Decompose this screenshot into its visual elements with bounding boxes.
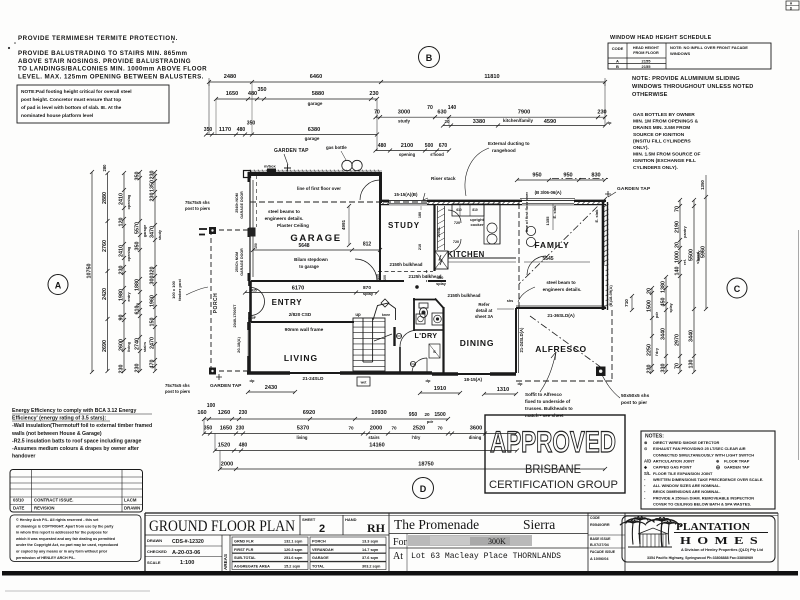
svg-text:CODE: CODE [590, 516, 601, 520]
svg-text:2740: 2740 [135, 338, 141, 350]
svg-text:5545: 5545 [542, 256, 553, 262]
svg-text:steel beam to: steel beam to [546, 280, 576, 285]
svg-text:1435: 1435 [249, 289, 257, 293]
svg-text:-Assumes medium colours & drap: -Assumes medium colours & drapes by owne… [12, 446, 139, 452]
svg-text:DRAINS MIN. 3.5M FROM: DRAINS MIN. 3.5M FROM [633, 125, 690, 131]
svg-text:permission of HENLEY ARCH P/L.: permission of HENLEY ARCH P/L. [16, 556, 75, 560]
svg-text:up: up [355, 312, 361, 317]
svg-text:A: A [616, 58, 619, 63]
svg-text:BASE ISSUE: BASE ISSUE [590, 537, 611, 541]
svg-text:250Ch NOM: 250Ch NOM [235, 252, 239, 272]
svg-text:TO LANDINGS/BALCONIES MIN. 100: TO LANDINGS/BALCONIES MIN. 1000mm ABOVE … [18, 66, 207, 73]
svg-text:4991: 4991 [341, 219, 346, 230]
svg-text:70: 70 [675, 363, 681, 369]
svg-text:DINING: DINING [460, 338, 495, 348]
svg-text:120: 120 [119, 218, 125, 227]
svg-text:DIRECT WIRED SMOKE DETECTOR: DIRECT WIRED SMOKE DETECTOR [653, 440, 719, 445]
svg-text:CERTIFICATION GROUP: CERTIFICATION GROUP [489, 479, 618, 491]
svg-text:2520: 2520 [413, 426, 425, 432]
svg-text:GARAGE: GARAGE [312, 556, 329, 560]
svg-text:6460: 6460 [310, 74, 322, 80]
svg-text:ENTRY: ENTRY [272, 298, 303, 307]
svg-text:GARAGE DOOR: GARAGE DOOR [240, 191, 244, 219]
svg-text:PROVIDE TERMIMESH TERMITE PROT: PROVIDE TERMIMESH TERMITE PROTECTION. [18, 35, 178, 42]
svg-text:SCALE: SCALE [147, 560, 161, 565]
svg-text:230: 230 [119, 365, 125, 374]
svg-text:3470: 3470 [150, 226, 156, 238]
svg-text:710: 710 [624, 299, 629, 307]
svg-text:14.7 sqm: 14.7 sqm [362, 548, 379, 552]
svg-text:OTHERWISE: OTHERWISE [632, 92, 668, 98]
svg-text:line of first floor over: line of first floor over [524, 192, 529, 232]
svg-text:225CL: 225CL [437, 226, 441, 238]
svg-text:A Division of Henley Propertie: A Division of Henley Properties (QLD) Pt… [681, 548, 764, 552]
svg-text:630: 630 [437, 110, 446, 116]
svg-text:50x50x5 shs: 50x50x5 shs [621, 393, 650, 399]
svg-text:330: 330 [661, 364, 667, 373]
svg-text:living: living [127, 341, 131, 352]
svg-text:B: B [616, 64, 619, 69]
svg-text:820F: 820F [248, 316, 256, 320]
svg-text:480: 480 [237, 127, 246, 133]
svg-text:NOTE: NO INFILL OVER FRONT FAC: NOTE: NO INFILL OVER FRONT FACADE [670, 45, 748, 50]
svg-text:15.2 sqm: 15.2 sqm [284, 565, 301, 569]
svg-text:10930: 10930 [371, 410, 387, 416]
svg-text:450: 450 [661, 298, 667, 307]
svg-text:fixed to underside of: fixed to underside of [525, 399, 571, 404]
svg-text:which it was requested and any: which it was requested and any fair deal… [15, 537, 116, 541]
svg-text:3380: 3380 [473, 119, 485, 125]
svg-text:BRICK DIMENSIONS ARE NOMINAL.: BRICK DIMENSIONS ARE NOMINAL. [653, 489, 721, 494]
svg-text:of drawings is COPYRIGHT. Apar: of drawings is COPYRIGHT. Apart from use… [16, 524, 114, 528]
svg-text:handover: handover [12, 454, 35, 460]
svg-text:SUB-TOTAL: SUB-TOTAL [234, 556, 256, 560]
svg-text:opening: opening [399, 152, 416, 157]
svg-text:13.3 sqm: 13.3 sqm [362, 540, 379, 544]
svg-text:ref.: ref. [683, 259, 687, 265]
svg-text:shs: shs [507, 299, 514, 303]
svg-text:21-24SLD(A): 21-24SLD(A) [519, 327, 524, 353]
svg-text:3354 Pacific Highway, Springwo: 3354 Pacific Highway, Springwood Ph:3380… [647, 556, 753, 560]
svg-text:670: 670 [439, 143, 448, 149]
svg-text:2155: 2155 [642, 58, 652, 63]
svg-text:SOURCE OF IGNITION: SOURCE OF IGNITION [633, 132, 685, 138]
svg-text:6920: 6920 [303, 410, 315, 416]
svg-text:480: 480 [248, 91, 257, 97]
svg-text:Plaster Ceiling: Plaster Ceiling [277, 223, 309, 228]
svg-text:GAS BOTTLES BY OWNER: GAS BOTTLES BY OWNER [633, 112, 695, 118]
svg-text:18750: 18750 [418, 462, 434, 468]
svg-text:detail at: detail at [476, 308, 493, 313]
svg-text:1350: 1350 [150, 180, 156, 192]
svg-text:5370: 5370 [297, 426, 309, 432]
svg-text:HOMES: HOMES [680, 535, 764, 547]
svg-text:2250: 2250 [647, 344, 653, 356]
svg-text:230: 230 [597, 110, 606, 116]
svg-text:2410: 2410 [119, 193, 125, 205]
svg-text:CONNECTED SIMULTANEOUSLY WITH: CONNECTED SIMULTANEOUSLY WITH LIGHT SWIT… [653, 452, 754, 457]
svg-text:-Wall insulation(Thermotuff fo: -Wall insulation(Thermotuff foil to exte… [12, 423, 152, 429]
svg-text:1170: 1170 [219, 127, 231, 133]
svg-text:PROVIDE BALUSTRADING TO STAIRS: PROVIDE BALUSTRADING TO STAIRS MIN. 865m… [18, 50, 188, 57]
svg-text:dp: dp [607, 120, 612, 125]
svg-text:5880: 5880 [312, 91, 324, 97]
svg-text:2470: 2470 [150, 337, 156, 349]
svg-text:MIN. 1.5M FROM SOURCE OF: MIN. 1.5M FROM SOURCE OF [633, 152, 700, 158]
svg-text:812: 812 [363, 242, 372, 248]
svg-text:18-15(A): 18-15(A) [464, 377, 483, 382]
svg-text:2/820 CSD: 2/820 CSD [289, 312, 312, 317]
svg-text:350: 350 [204, 127, 213, 133]
svg-text:FACADE ISSUE: FACADE ISSUE [590, 550, 616, 554]
svg-text:610: 610 [456, 208, 462, 212]
svg-text:line of first floor over: line of first floor over [297, 186, 341, 191]
svg-text:120.3 sqm: 120.3 sqm [284, 548, 303, 552]
svg-text:210: 210 [418, 244, 422, 250]
svg-text:The Promenade: The Promenade [394, 517, 479, 532]
svg-text:under the Copyright Act, no pa: under the Copyright Act, no part may be … [16, 543, 119, 547]
svg-text:150: 150 [150, 318, 156, 327]
svg-text:1350: 1350 [700, 180, 705, 190]
svg-text:-R2.5 insulation batts to roof: -R2.5 insulation batts to roof space inc… [12, 438, 142, 444]
svg-text:or copied by any means or in a: or copied by any means or in any form wi… [16, 550, 108, 554]
svg-text:70: 70 [675, 206, 681, 212]
svg-text:opening: opening [127, 246, 131, 261]
svg-text:Lot 63 Macleay Place THORNLAND: Lot 63 Macleay Place THORNLANDS [411, 552, 561, 561]
svg-text:2430: 2430 [265, 385, 277, 391]
svg-text:230: 230 [239, 410, 248, 416]
svg-text:l'dry: l'dry [655, 347, 659, 356]
svg-text:75x75x5 shs: 75x75x5 shs [165, 383, 190, 388]
svg-text:DRAWN: DRAWN [147, 538, 162, 543]
svg-text:WINDOW HEAD HEIGHT SCHEDULE: WINDOW HEAD HEIGHT SCHEDULE [610, 35, 712, 41]
svg-text:splay: splay [363, 291, 374, 296]
svg-text:PLANTATION: PLANTATION [676, 522, 751, 533]
svg-text:APPROVED: APPROVED [490, 426, 616, 459]
svg-text:RH: RH [367, 521, 386, 535]
svg-text:1500: 1500 [647, 300, 653, 312]
svg-text:500: 500 [425, 143, 434, 149]
svg-text:140: 140 [448, 105, 457, 111]
svg-text:trusses. Bulkheads to: trusses. Bulkheads to [525, 406, 573, 411]
svg-text:1500: 1500 [434, 412, 445, 418]
svg-text:A/D: A/D [644, 458, 651, 463]
svg-text:1520: 1520 [218, 443, 230, 449]
svg-text:480: 480 [239, 443, 248, 449]
svg-text:S: S [433, 349, 436, 354]
svg-text:1310: 1310 [497, 387, 509, 393]
svg-text:70: 70 [427, 105, 433, 111]
svg-text:KITCHEN: KITCHEN [447, 250, 484, 259]
svg-text:2150h bulkhead: 2150h bulkhead [448, 293, 481, 298]
svg-text:5500: 5500 [689, 249, 695, 261]
svg-text:steel beams to: steel beams to [268, 209, 300, 214]
svg-text:⨁: ⨁ [716, 465, 720, 470]
svg-text:FROM FLOOR: FROM FLOOR [633, 51, 659, 55]
svg-text:90: 90 [119, 315, 125, 321]
svg-text:For: For [393, 537, 408, 548]
svg-text:350: 350 [247, 121, 256, 127]
svg-text:⊗: ⊗ [644, 440, 648, 445]
svg-text:stairs: stairs [143, 342, 147, 352]
svg-text:engineers details.: engineers details. [543, 287, 582, 292]
svg-text:15-15(A)(B): 15-15(A)(B) [394, 192, 418, 197]
svg-text:nominated house platform level: nominated house platform level [21, 113, 93, 119]
svg-text:470: 470 [150, 360, 156, 369]
svg-text:E. sink: E. sink [594, 209, 599, 223]
svg-text:2480: 2480 [224, 74, 236, 80]
svg-text:post to piers: post to piers [185, 206, 211, 211]
svg-text:2150h bulkhead: 2150h bulkhead [390, 262, 423, 267]
svg-text:132.1 sqm: 132.1 sqm [284, 540, 303, 544]
svg-text:2: 2 [319, 523, 325, 535]
svg-text:Sierra: Sierra [523, 517, 555, 532]
svg-text:DATE: DATE [13, 506, 25, 511]
svg-text:2410: 2410 [119, 245, 125, 257]
svg-text:of pad is level with bottom of: of pad is level with bottom of slab. IE.… [21, 105, 122, 111]
svg-text:Efficiency' (energy rating of: Efficiency' (energy rating of 3.5 stars)… [12, 416, 106, 422]
svg-text:1260: 1260 [218, 410, 230, 416]
svg-text:B-07/27/04: B-07/27/04 [590, 543, 610, 547]
svg-text:l'dry: l'dry [412, 435, 421, 440]
svg-text:70: 70 [136, 303, 140, 307]
svg-text:950: 950 [563, 173, 572, 179]
svg-text:4590: 4590 [544, 119, 556, 125]
svg-text:2155: 2155 [642, 64, 652, 69]
svg-text:3440: 3440 [661, 328, 667, 340]
svg-text:320: 320 [150, 267, 156, 276]
svg-text:230: 230 [135, 364, 141, 373]
svg-text:1355: 1355 [545, 216, 550, 226]
svg-text:180: 180 [418, 212, 422, 218]
svg-text:3440: 3440 [689, 330, 695, 342]
svg-text:gas bottle: gas bottle [326, 145, 347, 150]
svg-text:280: 280 [102, 164, 107, 172]
svg-text:At: At [393, 551, 403, 562]
svg-text:AGGREGATE AREA: AGGREGATE AREA [234, 565, 270, 569]
svg-text:wet: wet [360, 381, 368, 385]
svg-text:6380: 6380 [308, 127, 320, 133]
svg-text:75x75x5 shs: 75x75x5 shs [185, 200, 210, 205]
svg-text:230: 230 [236, 426, 245, 432]
svg-text:2760: 2760 [102, 240, 108, 252]
svg-text:S/L: S/L [644, 471, 651, 476]
svg-text:pdr: pdr [427, 419, 434, 424]
svg-text:5648: 5648 [298, 243, 309, 249]
svg-text:230: 230 [150, 171, 156, 180]
svg-text:NOTE:Pad footing height critic: NOTE:Pad footing height critical for ove… [21, 89, 132, 95]
svg-text:NOTES:: NOTES: [645, 434, 664, 440]
svg-text:Riser stack: Riser stack [431, 176, 456, 181]
svg-text:entry: entry [127, 291, 131, 301]
svg-text:230: 230 [369, 91, 378, 97]
svg-text:2970: 2970 [675, 334, 681, 346]
svg-text:AREAS: AREAS [223, 554, 228, 570]
svg-text:300K: 300K [488, 537, 506, 546]
svg-text:GARDEN TAP: GARDEN TAP [724, 465, 750, 470]
svg-text:post to pier: post to pier [621, 400, 647, 406]
svg-text:21-24SLD: 21-24SLD [303, 376, 325, 381]
svg-text:timber post: timber post [177, 278, 182, 300]
svg-text:160: 160 [197, 410, 206, 416]
svg-text:251.6 sqm: 251.6 sqm [284, 556, 303, 560]
svg-text:Energy Efficiency to comply wi: Energy Efficiency to comply with BCA 3.1… [12, 408, 136, 414]
svg-text:FLOOR TILE EXPANSION JOINT: FLOOR TILE EXPANSION JOINT [653, 471, 713, 476]
svg-text:20-18(A): 20-18(A) [236, 336, 241, 352]
svg-text:140: 140 [675, 267, 681, 276]
svg-text:R0540ORR: R0540ORR [590, 523, 610, 527]
svg-text:20: 20 [675, 242, 681, 248]
svg-text:70: 70 [391, 426, 397, 431]
svg-text:HEAD HEIGHT: HEAD HEIGHT [633, 46, 660, 50]
svg-text:FIRST FLR: FIRST FLR [234, 548, 254, 552]
svg-text:rangehood: rangehood [492, 148, 516, 153]
svg-text:dp: dp [426, 378, 431, 383]
svg-text:WRITTEN DIMENSIONS TAKE PRECED: WRITTEN DIMENSIONS TAKE PRECEDENCE OVER … [653, 477, 763, 482]
svg-text:PORCH: PORCH [213, 293, 219, 314]
svg-text:CONTRACT ISSUE.: CONTRACT ISSUE. [34, 498, 73, 503]
svg-text:100 x 100: 100 x 100 [171, 280, 176, 299]
svg-text:1910: 1910 [434, 386, 446, 392]
svg-text:C: C [734, 284, 741, 294]
svg-text:720: 720 [454, 221, 460, 225]
svg-text:2100: 2100 [401, 143, 413, 149]
svg-text:L'DRY: L'DRY [414, 331, 437, 340]
svg-text:post to piers: post to piers [165, 389, 191, 394]
svg-text:ALL WINDOW SIZES ARE NOMINAL.: ALL WINDOW SIZES ARE NOMINAL. [653, 483, 720, 488]
svg-text:810: 810 [472, 208, 478, 212]
svg-text:post height. Concretor must en: post height. Concretor must ensure that … [21, 97, 121, 103]
svg-text:2190: 2190 [675, 221, 681, 233]
svg-text:1960: 1960 [150, 295, 156, 307]
svg-text:70: 70 [437, 426, 443, 431]
svg-text:garage: garage [143, 225, 147, 237]
svg-text:CAPPED GAS POINT: CAPPED GAS POINT [653, 465, 692, 470]
svg-text:90mm wall frame: 90mm wall frame [285, 327, 324, 333]
svg-text:DRAWN: DRAWN [124, 506, 140, 511]
svg-text:garage: garage [305, 136, 320, 141]
svg-text:1:100: 1:100 [180, 560, 194, 566]
svg-text:dp: dp [250, 378, 255, 383]
svg-text:dining: dining [469, 435, 482, 440]
svg-text:720: 720 [453, 240, 459, 244]
svg-text:D: D [420, 484, 427, 494]
svg-text:3000: 3000 [398, 110, 410, 116]
svg-text:HAND: HAND [345, 517, 357, 522]
svg-text:1650: 1650 [226, 91, 238, 97]
svg-text:830: 830 [591, 173, 600, 179]
svg-text:splay: splay [436, 282, 447, 286]
svg-text:350: 350 [135, 242, 141, 251]
svg-text:study: study [158, 229, 162, 240]
svg-text:37.6 sqm: 37.6 sqm [362, 556, 379, 560]
svg-text:PROVIDE A 250mm DIAM. REMOVEAB: PROVIDE A 250mm DIAM. REMOVEABLE INSPECT… [653, 495, 754, 500]
svg-text:stairs: stairs [368, 435, 380, 440]
svg-text:303.2 sqm: 303.2 sqm [362, 565, 381, 569]
svg-text:1980: 1980 [119, 289, 125, 301]
svg-text:walls (not between House & Gar: walls (not between House & Garage) [11, 431, 102, 437]
svg-text:Bilam stepdown: Bilam stepdown [294, 257, 328, 262]
svg-text:SHEET: SHEET [302, 517, 316, 522]
svg-text:21-36SLD(A): 21-36SLD(A) [547, 313, 575, 318]
svg-text:14160: 14160 [369, 443, 385, 449]
svg-text:600: 600 [383, 275, 387, 281]
svg-text:LACM: LACM [124, 498, 137, 503]
svg-text:kitchen/family: kitchen/family [503, 118, 534, 123]
svg-text:VERANDAH: VERANDAH [312, 548, 334, 552]
svg-text:2000: 2000 [221, 462, 233, 468]
svg-text:sheet 3A: sheet 3A [475, 314, 494, 319]
svg-text:Soffit to Alfresco: Soffit to Alfresco [525, 392, 562, 397]
svg-text:10750: 10750 [87, 264, 93, 279]
svg-text:100: 100 [207, 403, 216, 409]
svg-text:ALFRESCO: ALFRESCO [535, 344, 587, 354]
svg-text:(B)18-09(A): (B)18-09(A) [608, 285, 613, 307]
svg-text:950: 950 [409, 412, 418, 418]
svg-text:300: 300 [150, 276, 156, 285]
svg-text:GRND FLR: GRND FLR [234, 540, 254, 544]
svg-text:GROUND FLOOR PLAN: GROUND FLOOR PLAN [149, 518, 295, 535]
svg-text:ARTICULATION JOINT: ARTICULATION JOINT [653, 458, 695, 463]
svg-text:pantry: pantry [683, 225, 687, 237]
svg-text:garage: garage [308, 101, 323, 106]
svg-text:7900: 7900 [518, 110, 530, 116]
svg-text:Refer: Refer [478, 302, 490, 307]
svg-text:External ducting to: External ducting to [488, 141, 530, 146]
svg-text:GARDEN TAP: GARDEN TAP [210, 383, 242, 389]
svg-text:splay: splay [669, 303, 673, 312]
svg-text:opening: opening [127, 194, 131, 209]
svg-text:6170: 6170 [292, 286, 304, 292]
svg-text:130: 130 [689, 360, 695, 369]
svg-text:FAMILY: FAMILY [534, 240, 569, 250]
svg-text:CHECKED: CHECKED [147, 549, 167, 554]
svg-text:A: A [55, 281, 62, 291]
svg-text:cooker: cooker [470, 222, 484, 227]
svg-text:BRISBANE: BRISBANE [525, 462, 581, 476]
svg-text:230: 230 [150, 193, 156, 202]
svg-text:dp: dp [518, 381, 523, 386]
svg-text:REVISION: REVISION [34, 506, 55, 511]
svg-text:1880: 1880 [135, 279, 141, 291]
svg-text:WINDOWS: WINDOWS [670, 51, 691, 56]
svg-text:20: 20 [647, 288, 653, 294]
svg-text:450: 450 [437, 275, 444, 280]
svg-text:s'hood: s'hood [430, 152, 444, 157]
svg-text:2000: 2000 [370, 426, 382, 432]
svg-text:CYLINDERS ONLY).: CYLINDERS ONLY). [633, 165, 678, 171]
svg-text:ONLY).: ONLY). [633, 145, 649, 151]
svg-text:LIVING: LIVING [284, 353, 318, 363]
svg-text:NOTE: PROVIDE ALUMINIUM SLIDIN: NOTE: PROVIDE ALUMINIUM SLIDING [632, 76, 740, 82]
svg-text:5570: 5570 [135, 222, 141, 234]
svg-text:CDS-#-12320: CDS-#-12320 [172, 539, 204, 545]
svg-text:2040-1700ST: 2040-1700ST [233, 304, 237, 328]
svg-text:03/10: 03/10 [13, 498, 24, 503]
svg-text:TOTAL: TOTAL [312, 565, 325, 569]
svg-text:knee: knee [382, 313, 390, 317]
svg-text:(B 3/06-06(A): (B 3/06-06(A) [535, 190, 562, 195]
svg-text:⊙: ⊙ [644, 446, 648, 451]
svg-text:GARAGE DOOR: GARAGE DOOR [240, 248, 244, 276]
svg-text:2540h NOM: 2540h NOM [235, 193, 239, 213]
svg-text:70: 70 [348, 426, 354, 431]
svg-text:engineers details.: engineers details. [265, 216, 304, 221]
svg-text:1380: 1380 [661, 281, 667, 293]
svg-text:480: 480 [378, 143, 387, 149]
svg-text:350: 350 [204, 426, 213, 432]
svg-text:3600: 3600 [470, 426, 482, 432]
